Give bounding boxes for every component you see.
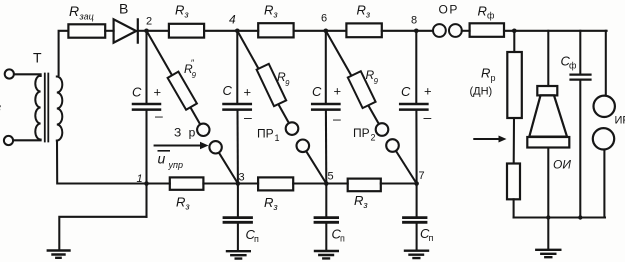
spark gap IR circle 2: [593, 128, 614, 149]
label R3 bottom 2: [264, 195, 278, 212]
svg-text:2: 2: [371, 133, 376, 143]
input terminal top circle: [5, 69, 14, 78]
node 6: [324, 29, 329, 34]
wire secondary bottom lead: [57, 141, 147, 184]
resistor R3 bottom 3: [348, 179, 381, 192]
divider OI funnel body: [529, 95, 567, 136]
node OI bottom junction: [546, 215, 550, 219]
capacitor Cf top lead: [579, 31, 581, 74]
svg-text:ф: ф: [487, 11, 495, 21]
svg-text:ПР: ПР: [353, 126, 370, 140]
svg-text:C: C: [132, 85, 142, 100]
capacitor Cp (node 5): [315, 218, 338, 223]
svg-text:ПР: ПР: [257, 127, 274, 141]
wire C to node 1: [145, 111, 147, 184]
wire rail node4 to R3: [237, 30, 258, 32]
svg-text:–: –: [424, 109, 432, 125]
svg-text:ОР: ОР: [439, 3, 459, 17]
wire C to node 7: [415, 111, 417, 184]
label Cp node3: [246, 227, 260, 244]
svg-text:R: R: [264, 3, 273, 18]
capacitor Cp (node 7): [404, 218, 427, 223]
wire rail node2 to R3: [147, 30, 169, 32]
wire Cf bottom lead: [579, 81, 581, 218]
wire bottom rail node5 to R3: [326, 182, 347, 184]
transformer T core: [45, 74, 49, 142]
capacitor C (node 4 column): [224, 104, 251, 110]
label Rf: [478, 4, 496, 21]
column node8: wire down to capacitor C: [415, 31, 417, 103]
wire Cp to ground: [237, 224, 239, 250]
wire node5 to Cp: [325, 184, 327, 217]
svg-text:п: п: [340, 234, 345, 244]
wire diode to node 2: [139, 30, 147, 32]
label Cp node7: [420, 226, 434, 243]
wire C to node 5: [325, 111, 327, 184]
node 7: [414, 181, 419, 186]
spark gap OP circle 2: [449, 24, 462, 37]
svg-text:R: R: [481, 66, 490, 81]
wire bottom rail to node 3: [203, 182, 238, 184]
svg-text:–: –: [244, 109, 252, 125]
node 8: [414, 29, 419, 34]
svg-text:з: з: [273, 202, 278, 212]
wire bottom rail node1 to R3: [147, 182, 170, 184]
capacitor Cf plates: [571, 75, 591, 80]
resistor R3 bottom 2: [258, 177, 293, 190]
svg-text:з: з: [365, 10, 370, 20]
switch PR1 wire from node 4: [237, 31, 292, 129]
wire node7 to Cp: [416, 184, 418, 217]
svg-text:9: 9: [192, 71, 197, 80]
svg-text:R: R: [69, 3, 79, 19]
diode B: [114, 19, 138, 42]
svg-text:ф: ф: [569, 61, 577, 71]
wire lower-left horizontal: [59, 217, 146, 250]
svg-text:Т: Т: [33, 50, 42, 66]
label u_upr: [158, 151, 183, 171]
svg-text:и: и: [158, 151, 166, 167]
wire Rzac to diode: [105, 30, 113, 32]
svg-text:+: +: [334, 84, 342, 99]
input terminal bottom circle: [4, 136, 13, 145]
label R9 (PR2): [366, 68, 379, 86]
column node2: wire down to capacitor C: [145, 31, 147, 103]
svg-text:–: –: [155, 108, 163, 124]
ground (node 7): [405, 251, 428, 258]
resistor R9 rotated box (PR2): [348, 71, 376, 108]
label PR1: [257, 127, 280, 144]
column node4: wire down to capacitor C: [236, 31, 238, 103]
node 3: [236, 181, 241, 186]
svg-text:R: R: [478, 4, 487, 19]
label Rzac: [69, 3, 94, 22]
svg-text:упр: упр: [168, 160, 183, 170]
label R3 top 2: [264, 3, 278, 20]
svg-text:9: 9: [374, 77, 379, 86]
node Cf bottom junction: [578, 215, 582, 219]
switch PR1 moving contact wire to node 5: [303, 146, 327, 184]
svg-text:В: В: [119, 1, 128, 17]
input arrow to divider: [474, 138, 499, 140]
switch PR2 fixed contact circle: [376, 123, 389, 136]
svg-text:+: +: [244, 85, 252, 100]
wire Cp to ground: [325, 224, 327, 250]
wire OI top lead: [547, 31, 549, 86]
wire top rail left vertical: [59, 31, 69, 75]
svg-text:R: R: [357, 3, 366, 18]
svg-text:п: п: [254, 234, 259, 244]
wire bottom rail to node 7: [381, 182, 417, 184]
label Rp: [481, 66, 496, 84]
transformer T primary winding: [35, 76, 40, 140]
label R9'': [184, 58, 197, 80]
svg-text:2: 2: [146, 16, 152, 28]
column node6: wire down to capacitor C: [325, 31, 327, 103]
label R3 bottom 3: [354, 193, 368, 210]
svg-text:C: C: [223, 83, 233, 98]
wire rail R3 to node 6: [294, 30, 326, 32]
label R9 (PR1): [277, 70, 290, 88]
svg-text:C: C: [312, 84, 322, 99]
wire junction to Rp: [513, 31, 515, 52]
capacitor C (node 6 column): [312, 104, 339, 110]
ground (left): [48, 251, 70, 258]
wire OP to Rf: [462, 30, 470, 32]
resistor lower box (divider): [507, 164, 520, 200]
node 2: [144, 29, 149, 34]
resistor Rzac box: [68, 24, 105, 37]
svg-text:з: з: [185, 202, 190, 212]
svg-text:R: R: [264, 195, 273, 210]
switch ZR moving contact wire to node 3: [216, 147, 238, 183]
capacitor C (node 2 column): [133, 104, 160, 110]
svg-text:З р: З р: [174, 126, 197, 140]
transformer T secondary winding: [57, 77, 63, 141]
switch PR1 fixed contact circle: [286, 122, 299, 135]
svg-text:R: R: [176, 195, 185, 210]
svg-text:8: 8: [411, 15, 417, 27]
wire bottom rail to node 5: [293, 182, 326, 184]
ground (right): [536, 250, 560, 257]
wire C to node 3: [236, 111, 238, 184]
label Cf: [561, 54, 578, 71]
ground (node 5): [315, 251, 338, 258]
wire rail node6 to R3: [326, 30, 347, 32]
wire rail Rf to right end: [504, 30, 607, 32]
svg-text:″: ″: [191, 58, 195, 68]
svg-text:з: з: [363, 200, 368, 210]
resistor Rp (DN) box: [507, 52, 522, 118]
wire IR bottom lead: [603, 150, 605, 218]
resistor R9 rotated box (PR1): [257, 64, 287, 106]
resistor R3 top 2: [258, 23, 293, 37]
wire IR top lead: [605, 31, 607, 96]
control voltage arrow: [155, 144, 201, 146]
svg-text:ИР: ИР: [615, 115, 625, 127]
wire node3 to Cp: [237, 184, 239, 217]
svg-text:(ДН): (ДН): [470, 86, 493, 98]
svg-text:1: 1: [137, 173, 143, 185]
wire bottom rail node3 to R3: [238, 182, 258, 184]
wire rail node8 to OP gap: [416, 30, 433, 32]
svg-text:з: з: [0, 100, 1, 115]
switch PR1 moving contact circle: [297, 140, 310, 153]
spark gap IR circle 1: [594, 96, 615, 117]
label R3 bottom 1: [176, 195, 190, 212]
wire ground stem right: [547, 218, 549, 250]
switch ZR moving contact circle: [209, 141, 221, 153]
divider OI base rect: [527, 137, 569, 148]
svg-text:–: –: [333, 111, 341, 127]
wire OI bottom lead: [547, 148, 549, 218]
switch PR2 wire from node 6: [326, 31, 382, 130]
switch ZR wire from node 2: [147, 31, 204, 130]
label Cp node5: [332, 227, 346, 244]
resistor Rf box: [470, 23, 504, 37]
node 5: [324, 181, 329, 186]
wire rail R3 to node 4: [204, 30, 237, 32]
switch PR2 moving contact circle: [386, 139, 399, 152]
capacitor Cp (node 3): [224, 218, 252, 223]
svg-text:5: 5: [328, 171, 334, 183]
svg-text:+: +: [154, 85, 162, 100]
svg-text:зац: зац: [79, 12, 94, 22]
svg-text:з: з: [273, 10, 278, 20]
resistor R3 bottom 1: [170, 177, 204, 189]
resistor R9'' rotated box: [168, 72, 197, 110]
svg-text:+: +: [424, 84, 432, 99]
svg-text:4: 4: [229, 13, 236, 27]
switch PR2 moving contact wire to node 7: [393, 146, 417, 184]
svg-text:1: 1: [275, 133, 280, 143]
wire right bottom line: [514, 216, 605, 218]
svg-text:9: 9: [285, 79, 290, 88]
label R3 top 3: [357, 3, 371, 20]
spark gap OP circle 1: [433, 24, 446, 37]
svg-text:з: з: [184, 10, 189, 20]
ground (node 3): [227, 251, 250, 258]
svg-text:C: C: [401, 84, 411, 99]
resistor R3 top 3: [346, 23, 381, 37]
svg-text:R: R: [354, 193, 363, 208]
node 1: [144, 181, 149, 186]
wire node1 down: [145, 184, 147, 217]
switch ZR fixed contact circle: [197, 124, 209, 136]
resistor R3 top 1: [169, 24, 204, 38]
label PR2: [353, 126, 376, 143]
node 4: [235, 29, 240, 34]
svg-text:6: 6: [321, 13, 327, 25]
node Rp junction: [512, 29, 517, 34]
capacitor C (node 8 column): [400, 104, 427, 110]
divider OI top cap rect: [537, 86, 557, 95]
svg-text:п: п: [429, 233, 434, 243]
svg-text:р: р: [491, 73, 496, 83]
wire lower box to bottom line: [513, 199, 515, 217]
svg-text:R: R: [175, 3, 184, 18]
svg-text:ОИ: ОИ: [553, 158, 571, 172]
svg-text:7: 7: [419, 170, 425, 182]
svg-text:3: 3: [239, 172, 245, 184]
wire Rp to lower box: [513, 118, 515, 164]
wire Cp to ground: [416, 224, 418, 250]
wire primary top lead: [14, 74, 41, 76]
label R3 top 1: [175, 3, 189, 20]
wire primary bottom lead: [13, 139, 40, 141]
wire rail R3 to node 8: [382, 30, 417, 32]
